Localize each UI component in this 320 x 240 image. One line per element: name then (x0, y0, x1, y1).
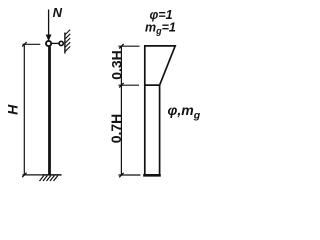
svg-text:N: N (53, 5, 63, 20)
middle tick (118, 84, 139, 86)
wall line of roller support (64, 33, 66, 54)
H bottom extension tick (22, 174, 42, 176)
svg-text:0.3H: 0.3H (108, 50, 124, 80)
pin joint at column top (46, 41, 51, 46)
top oblique tick (119, 44, 123, 49)
H top oblique tick (22, 42, 26, 47)
ground hatching (40, 176, 58, 181)
thick base of rectangle (143, 174, 161, 177)
fixed support ground line (42, 174, 62, 176)
wall hatching (65, 30, 70, 52)
column (48, 46, 51, 175)
right diagram: dimension line (120, 46, 122, 175)
bottom oblique tick (119, 173, 123, 178)
rectangle (bottom 0.7H) (145, 85, 160, 175)
link bar to roller (51, 42, 59, 44)
svg-text:H: H (4, 104, 20, 115)
H bottom oblique tick (22, 173, 26, 178)
H top extension tick (22, 43, 40, 45)
dimension line H (23, 44, 25, 175)
force N arrow (46, 10, 52, 42)
top tick (118, 45, 139, 47)
roller circle (59, 41, 63, 45)
bottom tick (118, 174, 140, 176)
middle oblique tick (119, 83, 123, 88)
taper diagram: trapezoid (top 0.3H) (145, 46, 175, 85)
svg-text:0.7H: 0.7H (108, 114, 124, 144)
